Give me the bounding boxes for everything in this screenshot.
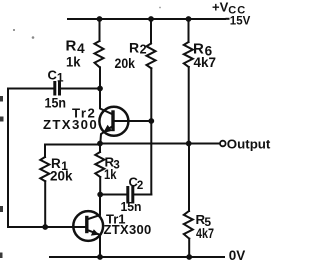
node R5 / 0V rail [186,254,192,260]
capacitor C2 left plate [126,186,129,204]
output terminal circle [220,141,226,147]
wire R2 column continues to C2 [150,121,152,195]
wire R1 top lead from emitter node [45,145,100,158]
node C1/R4/Tr2 collector [97,86,103,92]
wire Tr2 base lead to R2 [113,120,151,122]
wire R6 top lead [188,19,190,42]
wire dash before 15V [227,18,229,20]
wire Tr1 collector lead [87,195,100,220]
svg-text:R2: R2 [129,40,147,57]
svg-text:Output: Output [227,137,271,152]
wire R4 bottom lead [99,67,101,88]
wire Tr2 emitter lead [100,127,112,144]
node R1 / Tr1 base [42,224,48,230]
wire C1 left lead and left feedback column [8,89,53,228]
resistor R6 [184,42,193,67]
wire Tr1 emitter lead [87,230,100,257]
resistor R3 [95,152,104,177]
wire R6 bottom lead [188,67,190,144]
capacitor C1 left plate [53,81,56,96]
wire R5 top lead [188,144,190,212]
transistor Tr1 base bar [85,218,88,232]
wire R5 bottom lead [188,239,190,257]
wire C1 right lead [61,88,100,90]
wire R1 bottom lead [44,181,46,227]
wire R3 top lead [99,144,101,153]
svg-text:4k7: 4k7 [194,54,217,70]
transistor Q Tr1 circle [73,211,103,241]
wire Tr2 collector lead [100,89,112,115]
node R3 / C2 [97,192,103,198]
svg-text:C1: C1 [48,68,64,85]
resistor R4 [95,41,104,67]
svg-text:ZTX300: ZTX300 [104,222,152,237]
svg-text:1k: 1k [104,167,117,182]
transistor Tr2 emitter arrow [103,125,112,133]
node Tr1 emitter / 0V rail [97,254,103,260]
wire Tr1 base lead [8,226,87,228]
svg-text:20k: 20k [50,169,73,184]
svg-text:0V: 0V [229,248,246,262]
node junction top R4 [97,16,103,22]
resistor R2 [147,44,156,69]
wire R3 bottom lead [99,177,101,195]
transistor Q Tr2 circle [99,107,128,136]
wire C2 left lead [100,194,127,196]
node junction top R6 [186,16,192,22]
svg-text:1k: 1k [66,54,81,70]
svg-text:4k7: 4k7 [196,226,214,241]
wire R2 bottom lead to Tr2 base [150,68,152,121]
wire R4 top lead [99,19,101,41]
capacitor C1 right plate [58,81,61,96]
node Tr2 base / R2 [148,118,154,124]
resistor R5 [184,211,193,239]
node R6 / output line [186,141,192,147]
svg-text:15V: 15V [230,16,251,28]
wire output line [100,143,220,145]
wire C2 right lead [134,194,151,196]
svg-text:ZTX300: ZTX300 [43,117,98,132]
capacitor C2 right plate [131,186,134,204]
svg-text:20k: 20k [115,55,136,71]
wire bottom 0V rail [50,256,224,258]
svg-text:15n: 15n [45,96,67,111]
wire top +VCC rail [68,18,225,20]
transistor Tr2 base bar [111,112,114,130]
node junction top R2 [148,16,154,22]
resistor R1 [40,157,49,181]
transistor Tr1 emitter arrow [91,229,99,235]
node Tr2 emitter / output [97,141,103,147]
wire R2 top lead [150,19,152,44]
